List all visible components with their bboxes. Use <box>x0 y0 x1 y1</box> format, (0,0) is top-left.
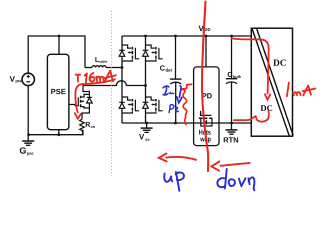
label VDD <box>199 26 204 31</box>
node: junction dot Vpse bottom <box>27 133 30 136</box>
transistor Q1 PSE port switch with body diode <box>69 86 89 120</box>
transistor M2 bridge top-right <box>146 45 163 61</box>
annotation blue Ps <box>169 105 178 113</box>
diode M3 body <box>119 102 125 108</box>
node: junction Lcable to left leg <box>121 66 124 69</box>
node: junction lower wire to right leg <box>144 84 147 87</box>
transistor M1 bridge top-left <box>122 45 139 61</box>
transistor M4 bridge bottom-right <box>146 97 163 113</box>
wire: lower cable wire with hop <box>83 81 146 86</box>
diode M2 body <box>143 50 149 56</box>
label Cdet <box>160 65 165 70</box>
label Vss <box>139 134 144 139</box>
annotation blue Ipd <box>163 86 174 95</box>
node: junction VDD stub <box>205 35 208 38</box>
diode M1 body <box>119 50 125 56</box>
label Cbulk <box>228 72 233 77</box>
annotation red loop bottom DC <box>234 111 269 122</box>
label PD <box>202 93 212 98</box>
wire: bridge right leg <box>145 36 147 123</box>
wire: top rail from Vpse to Lcable corner <box>28 36 85 73</box>
annotation red I label <box>76 75 81 82</box>
label DC bottom <box>261 105 273 111</box>
label Rcs <box>86 122 90 127</box>
wire: bottom rail through PD box <box>194 122 220 124</box>
diode M4 body <box>143 102 149 108</box>
label Gpse <box>20 147 34 155</box>
diode D1 body diode of Q1 <box>87 97 93 103</box>
wire: PSE bottom rail <box>28 130 83 135</box>
inductor Lcable <box>85 66 122 68</box>
dotted cable boundary line <box>111 11 113 178</box>
PSE box <box>47 54 69 129</box>
label PSE <box>51 89 65 94</box>
voltage source Vpse <box>22 73 34 85</box>
wire: VDD stub into PD <box>205 36 207 67</box>
wire: Vss bottom rail <box>122 122 251 124</box>
ground Vss <box>141 122 153 133</box>
PD box <box>194 67 219 146</box>
node: junction dot PSE bottom <box>57 133 60 136</box>
resistor Rcs <box>80 119 85 134</box>
node: junction dot PSE top <box>58 35 61 38</box>
annotation red vertical line through PD <box>202 2 208 172</box>
annotation blue down <box>217 169 254 190</box>
ground Gpse <box>22 135 34 146</box>
transistor TFT hotswap <box>199 111 212 126</box>
node: junction Cdet top <box>174 35 177 38</box>
wire: Vpse bottom to ground rail <box>27 86 29 135</box>
node: junction Cbulk top <box>230 35 233 38</box>
transistor M3 bridge bottom-left <box>122 97 139 113</box>
ground RTN <box>226 123 238 134</box>
node: junction right leg top rail <box>144 35 147 38</box>
label Hotswap <box>199 130 211 135</box>
annotation blue down arrow at Cdet <box>177 86 182 103</box>
annotation red 1mA <box>287 83 316 97</box>
label DC top <box>273 60 286 66</box>
annotation red 16mA <box>85 71 116 83</box>
annotation red arrow bottom right <box>212 161 250 170</box>
DC-DC converter box <box>251 28 293 136</box>
node: junction Cdet bottom <box>174 122 177 125</box>
node: junction Cbulk bottom RTN <box>230 122 233 125</box>
annotation red squiggle near Cdet <box>182 84 192 124</box>
capacitor Cbulk <box>226 36 237 123</box>
wire: VDD top rail <box>122 35 251 37</box>
label Lcable <box>95 57 99 62</box>
label RTN <box>224 137 238 142</box>
label Vpse <box>10 76 15 82</box>
capacitor Cdet <box>170 36 181 123</box>
annotation red arrow to Rcs <box>75 79 115 118</box>
annotation red loop top to DC <box>232 38 270 99</box>
annotation red arrow bottom left <box>159 154 196 162</box>
wire: bridge left leg <box>121 36 123 123</box>
wire: PSE bottom stub <box>58 130 60 135</box>
annotation blue up <box>164 172 184 191</box>
wire: PSE top stub <box>58 36 60 54</box>
